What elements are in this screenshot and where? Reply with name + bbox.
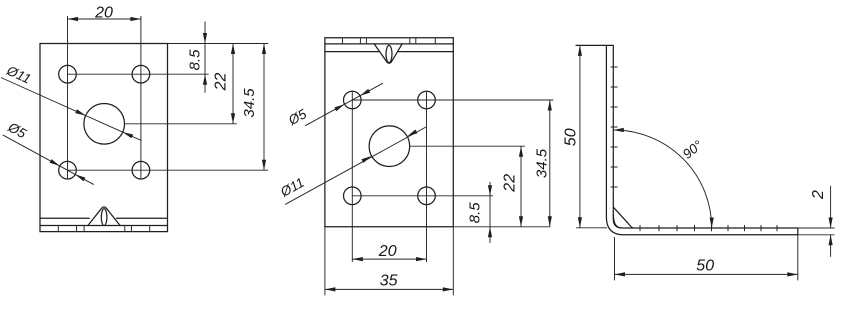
middle row2 centerline	[352, 195, 493, 197]
dim 2 line	[830, 186, 832, 257]
svg-text:8.5: 8.5	[467, 202, 484, 224]
left view serration ticks	[58, 226, 149, 231]
hole bottom-right Ø5	[132, 161, 150, 179]
arc arrow top	[613, 128, 624, 132]
dim 50v line	[579, 45, 581, 227]
middle leader Ø11 arrow 2	[407, 130, 417, 137]
svg-text:20: 20	[378, 243, 397, 260]
middle dim 34.5 arrow top	[548, 100, 552, 111]
row2 centerline	[68, 169, 269, 171]
dim 34.5 arrow top	[262, 44, 266, 55]
svg-text:34.5: 34.5	[534, 148, 551, 178]
leader Ø5 arrow 1	[50, 159, 60, 166]
dim 50v arrow top	[578, 45, 582, 56]
dim 50h arrow right	[787, 272, 798, 276]
middle dim 8.5 arrow bottom	[488, 227, 492, 238]
hole top-left Ø5	[59, 65, 77, 83]
middle plate outline	[325, 38, 453, 227]
middle serration ticks	[343, 38, 436, 43]
leader Ø11 arrow 2	[123, 132, 134, 138]
dim 50h arrow left	[615, 272, 626, 276]
arc arrow bottom	[710, 218, 714, 229]
svg-text:35: 35	[380, 272, 398, 289]
middle hole bottom-left	[344, 187, 362, 205]
dim 8.5 arrow top	[203, 33, 207, 44]
middle leader Ø11 line	[285, 127, 426, 204]
middle rib ellipse	[386, 45, 392, 62]
top edge extension	[168, 43, 269, 45]
dim 2 upper extension	[798, 227, 835, 229]
dim 50h left extension	[614, 237, 616, 280]
leader Ø11 arrow 1	[75, 109, 86, 115]
middle bend line	[325, 51, 453, 53]
dim 2 arrow bottom	[829, 235, 833, 246]
left view plate outline	[40, 44, 168, 232]
dim 8.5 line	[204, 22, 206, 93]
middle dim 20 arrow right	[416, 257, 427, 261]
middle dim 34.5 line	[549, 100, 551, 227]
left view bend line	[40, 217, 168, 219]
dim 50h right extension	[797, 235, 799, 281]
svg-text:50: 50	[563, 128, 580, 146]
left view rib triangle	[88, 207, 120, 226]
middle hole top-right	[418, 91, 436, 109]
middle dim 35 arrow left	[325, 287, 336, 291]
left view rib ellipse	[101, 209, 107, 226]
profile horizontal-leg ticks	[640, 225, 777, 231]
dim 20 arrow left	[68, 17, 79, 21]
dim 20 line	[68, 18, 141, 20]
dim 22 arrow bottom	[231, 113, 235, 124]
svg-text:20: 20	[94, 5, 113, 22]
middle leader Ø5 arrow 1	[334, 104, 344, 111]
dim 22 arrow top	[231, 44, 235, 55]
middle leader Ø11 arrow 1	[361, 156, 371, 163]
dim 20 arrow right	[130, 17, 141, 21]
dim 50v bottom extension	[576, 227, 607, 229]
svg-text:34.5: 34.5	[241, 88, 258, 118]
middle big-hole centerline	[410, 145, 525, 147]
middle dim 8.5 arrow top	[488, 185, 492, 196]
left view band line	[40, 225, 168, 227]
middle right edge extension	[452, 227, 454, 295]
middle dim 22 line	[520, 146, 522, 227]
hole top-right Ø5	[132, 65, 150, 83]
middle leader Ø5 line	[305, 83, 383, 126]
profile outline	[576, 45, 798, 234]
middle leader Ø5 arrow 2	[360, 89, 370, 96]
svg-text:50: 50	[696, 257, 714, 274]
middle hole top-left	[344, 91, 362, 109]
dim 34.5 arrow bottom	[262, 160, 266, 171]
dim 34.5 line	[263, 44, 265, 171]
svg-text:8.5: 8.5	[186, 49, 203, 71]
middle dim 20 arrow left	[352, 257, 363, 261]
middle dim 22 arrow bottom	[519, 216, 523, 227]
middle dim 22 arrow top	[519, 146, 523, 157]
hole bottom-left Ø5	[59, 161, 77, 179]
dim 50h line	[615, 273, 798, 275]
dim 8.5 arrow bottom	[203, 74, 207, 85]
middle left column centerline	[351, 91, 353, 262]
middle dim 8.5 line	[489, 182, 491, 243]
dim 22 line	[232, 44, 234, 124]
middle right column centerline	[426, 91, 428, 262]
svg-text:2: 2	[810, 190, 827, 200]
leader Ø11 line	[1, 78, 142, 141]
left column centerline	[67, 16, 69, 179]
middle bottom edge extension	[453, 226, 550, 228]
dim 50v arrow bottom	[578, 217, 582, 228]
arc 90deg	[614, 130, 712, 228]
center hole Ø11	[84, 104, 125, 145]
svg-text:22: 22	[213, 73, 230, 92]
profile rib	[613, 207, 632, 228]
middle rib triangle	[374, 44, 402, 63]
dim 2 arrow top	[829, 218, 833, 229]
svg-text:22: 22	[502, 174, 519, 193]
middle band line	[325, 43, 453, 45]
middle dim 35 arrow right	[443, 287, 454, 291]
middle hole bottom-right	[418, 187, 436, 205]
middle left edge extension	[324, 227, 326, 295]
big-hole centerline	[125, 123, 237, 125]
dim 2 lower extension	[798, 234, 835, 236]
middle center hole Ø11	[369, 126, 410, 167]
profile vertical-leg ticks	[611, 67, 618, 187]
middle dim 35 line	[325, 288, 453, 290]
middle dim 34.5 arrow bottom	[548, 216, 552, 227]
leader Ø5 line	[3, 135, 94, 185]
leader Ø5 arrow 2	[75, 174, 85, 181]
row1 centerline	[68, 73, 209, 75]
middle row1 centerline	[352, 99, 553, 101]
right column centerline	[140, 16, 142, 179]
middle dim 20 line	[352, 258, 426, 260]
